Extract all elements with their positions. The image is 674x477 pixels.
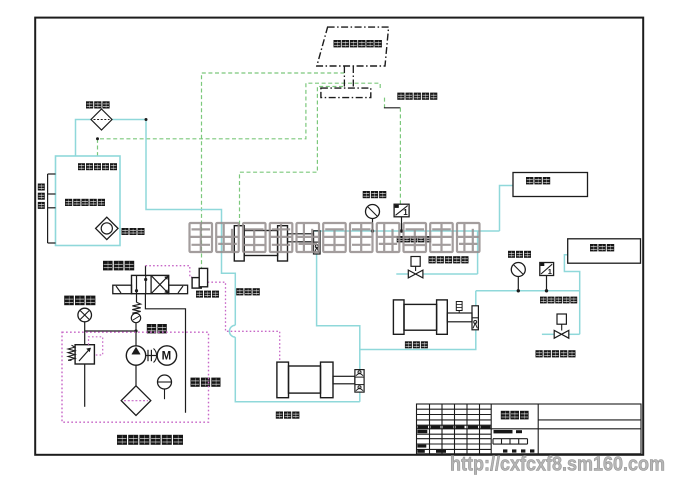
green cable A: data system to solenoid valve <box>202 73 345 268</box>
pressure transmitter 2 <box>540 263 554 276</box>
constant pressure pump right cap <box>321 362 334 398</box>
solenoid valve <box>192 278 201 289</box>
svg-text:M: M <box>162 351 172 363</box>
pump-motor coupling <box>146 355 158 357</box>
constant pressure pump left cap <box>277 362 289 398</box>
pressure gauge (pump) <box>78 308 92 322</box>
relief valve drain line <box>84 364 86 407</box>
label: directional valve <box>103 261 134 271</box>
label: filter <box>86 101 110 108</box>
label: data acquisition system <box>334 40 382 47</box>
intensifier pump 2 body <box>404 304 437 330</box>
wire: filter to water tank <box>76 120 92 157</box>
intensifier pump 1 right cap <box>278 226 288 261</box>
wire: down-run to constant pressure pump bottom line <box>235 337 359 402</box>
wire: intensifier 1 check block down-run <box>317 254 360 370</box>
high pressure gauge 1 <box>366 205 380 219</box>
label: pressure transmitter 1 <box>397 236 431 242</box>
high pressure relief valve 2 <box>557 314 566 324</box>
green cable B: data system to tank temperature sensor <box>98 83 381 156</box>
wire: branch to high pressure relief valve 1 <box>477 231 479 274</box>
green cable C: data system to intensifier pump 1 <box>240 87 344 226</box>
junction dot gauge 2 <box>517 289 520 292</box>
directional valve left cell through-lines <box>136 275 138 293</box>
watermark company name <box>190 223 480 252</box>
intensifier pump 2 relief spring <box>458 311 460 314</box>
junction dot transmitter 2 <box>545 289 548 292</box>
intensifier pump 2 rod <box>447 313 472 322</box>
data acquisition system monitor <box>317 27 389 66</box>
label: oil tank and filter <box>117 435 183 445</box>
system relief valve <box>75 345 94 364</box>
intensifier pump 1 left cap <box>234 226 244 261</box>
constant pressure pump rod <box>333 376 355 384</box>
intensifier pump 1 check block <box>314 231 321 254</box>
wire: intensifier 2 outlet line <box>475 291 477 306</box>
intensifier pump 1 body <box>244 231 277 256</box>
label: test piece 1 <box>526 177 550 184</box>
label: high pressure relief valve 1 <box>429 256 469 263</box>
gauge branch line <box>85 330 136 332</box>
label: solenoid valve <box>196 291 219 298</box>
relief valve spring <box>68 345 75 360</box>
svg-text:1: 1 <box>548 267 552 276</box>
label: pressure transmitter 2 <box>540 297 577 304</box>
label: temperature sensor <box>78 163 117 170</box>
label: motor <box>147 324 167 333</box>
test piece box 1 <box>513 173 588 197</box>
label: pressure gauge <box>64 296 95 306</box>
intensifier pump 2 left cap <box>393 300 404 334</box>
wire: relief valve 1 run <box>396 273 408 275</box>
label: test piece 2 <box>590 244 614 251</box>
oil tank and filter enclosure (dashed box) <box>62 332 209 422</box>
label: stainless steel water tank <box>65 199 105 206</box>
valve T-port return line <box>145 294 185 413</box>
valve P-port line with spring and check valve <box>136 294 138 303</box>
oil level gauge <box>158 375 172 389</box>
label: constant pressure pump <box>276 412 300 419</box>
wire: main high pressure line <box>314 230 500 232</box>
heater (diamond with circle) <box>96 217 118 239</box>
intensifier pump 2 right cap <box>437 300 448 334</box>
electric motor M <box>157 346 176 365</box>
junction dot gauge 1 <box>371 229 374 232</box>
constant pressure pump check block <box>355 370 364 393</box>
title block label: schematic <box>501 411 529 420</box>
wire: filter to directional valve area (supply down-run) <box>111 120 235 326</box>
hydraulic pump <box>126 346 145 365</box>
water tank (stainless steel) <box>56 156 121 246</box>
intensifier pump 1 rod <box>288 234 314 242</box>
label: intensifier pump 1 <box>236 288 260 295</box>
junction dot transmitter 1 <box>400 229 403 232</box>
monitor stand <box>343 66 345 88</box>
junction dot filter line <box>145 118 148 121</box>
label: level gauge (vertical) <box>38 184 45 209</box>
pressure transmitter 1 <box>394 204 409 217</box>
label: data acquisition box <box>397 93 437 100</box>
wire: constant pressure pump check block column <box>359 392 361 402</box>
directional valve right wing <box>169 285 188 294</box>
wire: relief valve 2 run <box>569 333 580 335</box>
label: oil level gauge <box>191 378 221 387</box>
green cable D: acquisition box to pressure transmitter 1 <box>384 98 386 108</box>
svg-text:1: 1 <box>403 208 408 217</box>
label: heater <box>122 228 145 235</box>
directional valve left wing <box>113 285 132 294</box>
high pressure gauge 2 <box>511 263 525 277</box>
relief valve pilot loop <box>89 337 103 355</box>
pilot line: solenoid valve to constant pressure pump <box>208 282 280 362</box>
tank level gauge <box>47 174 49 243</box>
title block dark entries <box>417 426 534 453</box>
label: high pressure gauge 2 <box>508 251 531 258</box>
high pressure relief valve 1 <box>411 257 420 267</box>
label: high pressure relief valve 2 <box>536 350 576 357</box>
wire: main line up to test piece 1 <box>500 186 514 232</box>
suction filter (diamond) <box>121 386 151 416</box>
filter F1 (diamond) <box>91 109 112 130</box>
wire: branch to intensifier 2 check block <box>360 330 476 350</box>
title block <box>417 404 642 454</box>
directional valve right cell crossed arrows <box>152 276 168 293</box>
constant pressure pump body <box>289 366 321 393</box>
svg-text:http://cxfcxf8.sm160.com: http://cxfcxf8.sm160.com <box>450 454 665 476</box>
directional valve body <box>132 275 169 293</box>
pump suction line <box>135 365 137 386</box>
label: intensifier pump 2 <box>405 341 428 348</box>
wire: test piece 2 connection <box>564 255 579 335</box>
wire hop over crossing <box>229 325 235 337</box>
intensifier pump 2 check block <box>472 306 478 330</box>
junction dot green/tank <box>96 137 99 140</box>
keyboard <box>321 88 371 98</box>
pilot line: directional valve to solenoid valve <box>145 266 147 276</box>
test piece box 2 <box>568 239 641 263</box>
label: high pressure gauge 1 <box>363 191 387 198</box>
